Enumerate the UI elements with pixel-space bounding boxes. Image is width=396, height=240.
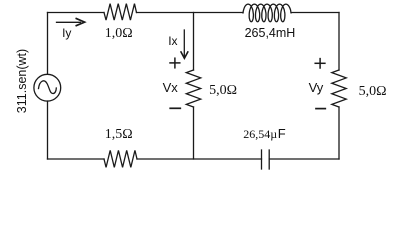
inductor L1 265,4mH — [243, 4, 291, 22]
wire bottom-left horizontal — [48, 158, 105, 160]
label 5,0Ω value (right) — [359, 84, 387, 100]
label Ix — [168, 34, 177, 48]
wire middle vertical bottom lead — [193, 107, 195, 159]
resistor R1 1,0Ω — [104, 4, 137, 20]
wire middle vertical top lead — [193, 13, 195, 71]
polarity - (Vx) — [170, 107, 180, 109]
polarity + (Vy) — [315, 59, 325, 68]
label 1,0Ω value — [105, 26, 133, 42]
wire bottom-right horizontal — [269, 158, 339, 160]
label Vy — [309, 80, 324, 95]
wire top-middle horizontal — [137, 12, 244, 14]
label 26,54µF value (F sans part) — [278, 126, 286, 141]
resistor R3 5,0Ω (middle) — [186, 70, 200, 107]
wire bottom-middle horizontal — [137, 158, 262, 160]
source V1 sine symbol — [39, 81, 57, 94]
wire top-left horizontal — [48, 12, 105, 14]
wire right vertical top lead — [338, 13, 340, 71]
capacitor C1 26,54µF — [262, 150, 270, 169]
label 265,4mH value — [245, 26, 296, 40]
source V1 AC circle — [34, 74, 61, 101]
label 26,54µF value (serif part) — [243, 127, 277, 142]
wire right vertical bottom lead — [338, 107, 340, 159]
resistor R2 1,5Ω — [104, 150, 137, 167]
label Vx — [163, 80, 178, 95]
current arrow Ix — [181, 30, 188, 58]
polarity - (Vy) — [316, 108, 325, 110]
label Iy — [62, 26, 71, 40]
label 5,0Ω value (middle) — [209, 83, 237, 99]
label 311.sen(wt) source value — [15, 49, 29, 113]
current arrow Iy — [57, 19, 85, 26]
wire left vertical bottom lead — [47, 101, 49, 159]
label 1,5Ω value — [105, 127, 133, 143]
polarity + (Vx) — [170, 58, 180, 68]
resistor R4 5,0Ω (right) — [332, 70, 346, 107]
wire left vertical top lead — [47, 13, 49, 75]
wire top-right horizontal — [291, 12, 339, 14]
